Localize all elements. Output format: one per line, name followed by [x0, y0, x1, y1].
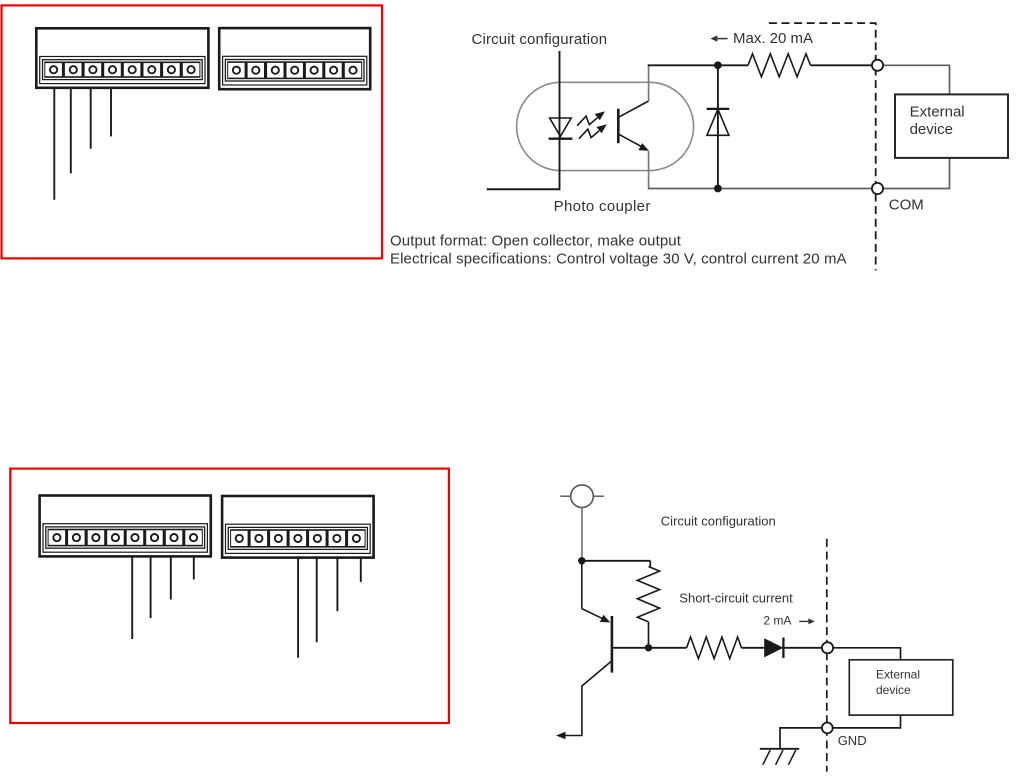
bottom terminal panel red outline	[10, 469, 449, 723]
terminal TB3.7 cell	[166, 530, 183, 545]
terminal TB4.6 screw	[333, 535, 340, 542]
terminal TB2.6 cell	[325, 63, 341, 78]
terminal TB2.5 screw	[311, 67, 318, 74]
terminal TB3.2 screw	[73, 534, 80, 541]
terminal TB4.3 screw	[275, 535, 282, 542]
wire TB4 terminal 5 lead	[316, 558, 318, 643]
terminal TB4.5 screw	[314, 535, 321, 542]
wire TB1 terminal 4 lead	[110, 88, 112, 137]
terminal TB3.7 screw	[170, 534, 177, 541]
node D junction dot	[645, 644, 652, 651]
terminal TB3.8 screw	[190, 534, 197, 541]
terminal TB2.5 cell	[306, 63, 322, 78]
terminal TB1.7 cell	[163, 63, 180, 76]
photo coupler U1 package outline	[517, 82, 694, 170]
terminal TB2.4 screw	[291, 67, 298, 74]
wire TB3 terminal 8 lead	[193, 556, 195, 579]
external device connection wires (bottom)	[833, 648, 900, 660]
svg-text:Short-circuit current: Short-circuit current	[679, 591, 793, 606]
power supply symbol V1	[571, 485, 594, 508]
svg-text:Photo coupler: Photo coupler	[554, 198, 651, 215]
dashed boundary (bottom circuit)	[826, 539, 828, 772]
terminal strip TB4 black band	[230, 529, 366, 547]
LED D1 of photo coupler	[550, 118, 572, 136]
terminal TB4.1 screw	[236, 535, 243, 542]
terminal TB2.4 cell	[287, 63, 303, 78]
resistor R1 (Max. 20 mA)	[748, 54, 811, 77]
wire TB1 terminal 1 lead	[53, 88, 55, 200]
terminal TB3.5 screw	[131, 534, 138, 541]
terminal TB1.3 screw	[89, 66, 96, 73]
terminal TB3.2 cell	[68, 530, 85, 545]
svg-text:2 mA: 2 mA	[763, 613, 791, 627]
terminal block TB4 housing	[222, 496, 374, 558]
terminal TB3.4 screw	[112, 534, 119, 541]
wire TB1 terminal 2 lead	[70, 88, 72, 174]
wire TB4 terminal 7 lead	[360, 558, 362, 582]
transistor Q2 base bar	[611, 616, 614, 673]
resistor R3 (series)	[687, 637, 742, 659]
terminal strip TB2 inner frame	[225, 60, 364, 82]
terminal TB3.1 cell	[49, 530, 66, 545]
wire TB3 terminal 5 lead	[131, 556, 133, 639]
terminal strip TB3 outer frame	[43, 524, 207, 553]
terminal TB4.2 screw	[255, 535, 262, 542]
node A junction dot	[714, 61, 722, 69]
wire R3 to diode D3	[742, 647, 765, 649]
External device box (top)	[895, 94, 1008, 157]
terminal TB2.1 cell	[228, 63, 244, 78]
light arrow 1	[577, 116, 597, 126]
terminal strip TB3 black band	[48, 529, 203, 547]
terminal TB1.4 cell	[104, 63, 121, 76]
svg-text:GND: GND	[838, 733, 867, 748]
terminal TB2.6 screw	[330, 67, 337, 74]
wire collector to node A	[648, 64, 748, 66]
transistor Q2 emitter with arrow	[563, 661, 612, 736]
terminal TB2.7 cell	[345, 63, 361, 78]
wire TB1 terminal 3 lead	[90, 88, 92, 149]
terminal TB4.2 cell	[251, 531, 268, 546]
terminal TB1.1 cell	[45, 63, 62, 76]
terminal TB2.1 screw	[233, 67, 240, 74]
external device connection wires (top)	[883, 65, 949, 94]
node B junction dot	[714, 185, 722, 193]
terminal TB2.7 screw	[349, 67, 356, 74]
terminal TB1.2 cell	[65, 63, 82, 76]
wire GND terminal to ground	[780, 728, 822, 749]
terminal TB3.5 cell	[127, 530, 144, 545]
output terminal (bottom)	[822, 642, 833, 653]
phototransistor emitter lead with arrow	[618, 134, 644, 148]
terminal TB3.4 cell	[107, 530, 124, 545]
terminal TB2.2 cell	[248, 63, 264, 78]
wire D3 to output terminal	[783, 647, 821, 649]
clamp diode D2	[707, 108, 730, 110]
terminal TB4.1 cell	[231, 531, 248, 546]
terminal TB1.5 cell	[124, 63, 141, 76]
terminal TB1.2 screw	[70, 66, 77, 73]
terminal TB1.1 screw	[50, 66, 57, 73]
terminal TB4.7 cell	[348, 531, 365, 546]
terminal strip TB1 black band	[44, 62, 200, 78]
terminal block TB1 housing	[36, 28, 208, 88]
terminal TB1.3 cell	[85, 63, 102, 76]
terminal TB4.7 screw	[353, 535, 360, 542]
wire emitter rail to COM terminal	[649, 188, 872, 190]
label: Max. 20 mA with left arrow	[714, 38, 728, 40]
terminal TB3.3 screw	[92, 534, 99, 541]
wire input bottom-left	[487, 188, 561, 190]
terminal strip TB4 outer frame	[226, 524, 371, 553]
wire LED anode input	[559, 51, 561, 189]
terminal TB1.7 screw	[168, 66, 175, 73]
ground symbol	[760, 748, 800, 750]
terminal TB2.2 screw	[252, 67, 259, 74]
terminal TB3.8 cell	[185, 530, 202, 545]
phototransistor collector lead	[618, 101, 649, 118]
COM terminal	[872, 183, 883, 194]
wire node C to resistor R2 top	[582, 560, 651, 562]
terminal TB1.4 screw	[109, 66, 116, 73]
terminal TB3.1 screw	[53, 534, 60, 541]
terminal strip TB1 outer frame	[40, 57, 205, 84]
terminal TB4.3 cell	[270, 531, 287, 546]
wire TB3 terminal 6 lead	[150, 556, 152, 618]
terminal TB4.4 cell	[290, 531, 307, 546]
terminal TB3.6 cell	[146, 530, 163, 545]
output terminal (top)	[872, 60, 883, 71]
wire resistor to output terminal	[811, 64, 872, 66]
svg-text:Electrical specifications: Con: Electrical specifications: Control volta…	[390, 251, 847, 268]
terminal strip TB1 inner frame	[43, 60, 203, 80]
phototransistor Q1 base bar	[617, 109, 620, 144]
terminal block TB2 housing	[219, 28, 370, 89]
clamp diode D2 branch wire	[717, 65, 719, 188]
terminal TB4.5 cell	[309, 531, 326, 546]
svg-text:Max. 20 mA: Max. 20 mA	[733, 30, 813, 47]
wire TB3 terminal 7 lead	[170, 556, 172, 599]
svg-text:COM: COM	[889, 197, 924, 214]
terminal TB3.6 screw	[151, 534, 158, 541]
wire TB4 terminal 4 lead	[297, 558, 299, 658]
terminal TB4.6 cell	[329, 531, 346, 546]
light arrow 2	[579, 129, 599, 139]
wire base drive with arrow	[581, 561, 583, 609]
terminal TB1.5 screw	[129, 66, 136, 73]
GND terminal	[822, 723, 833, 734]
terminal TB1.6 screw	[148, 66, 155, 73]
wire collector row to resistor R3	[612, 647, 687, 649]
svg-text:External: External	[876, 668, 920, 682]
terminal TB2.3 cell	[267, 63, 283, 78]
svg-text:device: device	[910, 121, 953, 138]
External device box (bottom)	[849, 660, 953, 715]
terminal TB1.6 cell	[144, 63, 161, 76]
terminal block TB3 housing	[40, 496, 211, 557]
svg-text:Circuit configuration: Circuit configuration	[661, 513, 776, 528]
terminal TB1.8 cell	[183, 63, 200, 76]
wire power lead	[581, 508, 583, 561]
terminal TB1.8 screw	[188, 66, 195, 73]
top terminal panel red outline	[2, 5, 383, 258]
resistor R2 (pull-up)	[649, 561, 651, 567]
dashed boundary (top circuit)	[769, 23, 876, 270]
terminal strip TB4 inner frame	[228, 527, 367, 549]
terminal TB2.3 screw	[272, 67, 279, 74]
wire TB4 terminal 6 lead	[336, 558, 338, 612]
terminal TB3.3 cell	[88, 530, 105, 545]
node C junction dot	[578, 557, 585, 564]
svg-text:device: device	[876, 683, 911, 697]
svg-text:Circuit configuration: Circuit configuration	[472, 31, 608, 48]
diode D3	[764, 638, 783, 657]
terminal strip TB2 outer frame	[223, 56, 367, 85]
terminal strip TB2 black band	[227, 61, 362, 79]
terminal TB4.4 screw	[294, 535, 301, 542]
terminal strip TB3 inner frame	[46, 527, 205, 548]
svg-text:External: External	[910, 104, 965, 121]
svg-text:Output format: Open collector,: Output format: Open collector, make outp…	[390, 233, 682, 250]
